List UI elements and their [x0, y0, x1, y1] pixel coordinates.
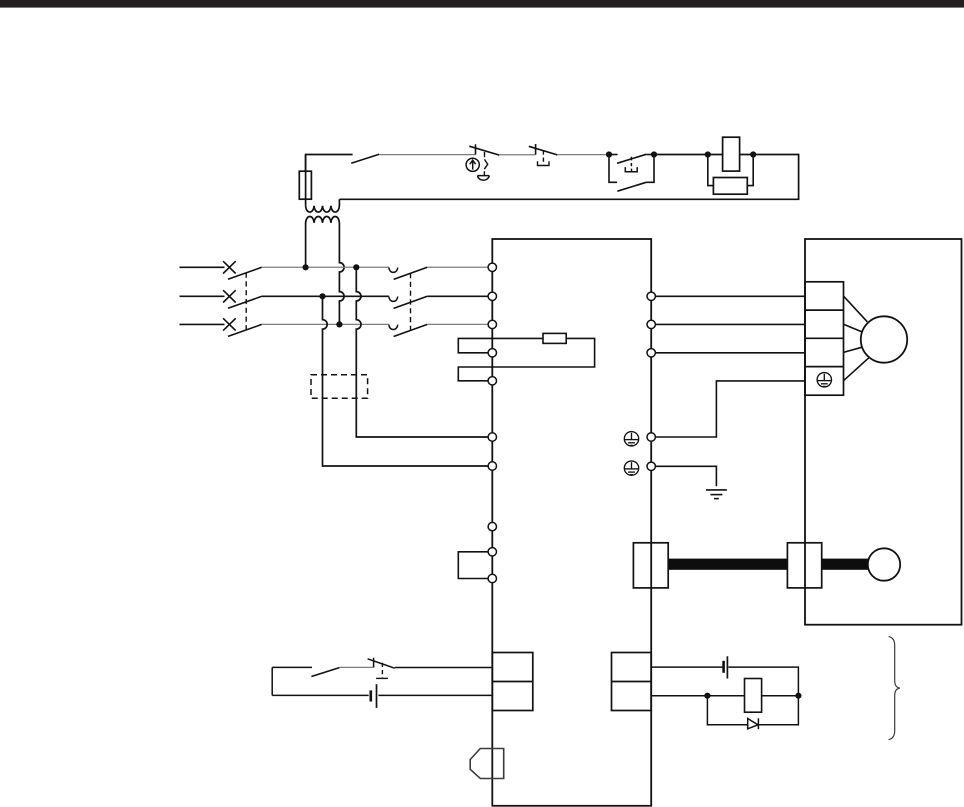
junction: secondary right on L3 [336, 321, 342, 327]
relay coil K1 [723, 137, 740, 171]
motor feed wire V [656, 323, 806, 325]
disconnect switch blade L3 [228, 324, 262, 336]
pump impeller [868, 548, 900, 580]
contactor fixed contact cup L1 [389, 268, 398, 273]
transformer T1 primary winding [306, 199, 340, 212]
contactor mechanical link (dashed) [410, 273, 412, 333]
earth wire to motor terminal block [656, 381, 806, 437]
bus wire L2 [262, 295, 389, 297]
motor lead W [844, 347, 862, 352]
protective earth symbol PE2 [624, 461, 638, 475]
wire: node D right side and control loop return [339, 155, 798, 200]
terminal 6 [488, 433, 496, 441]
thermal sensor bulb [477, 176, 489, 181]
sensor circuit wire to right corner [728, 667, 798, 696]
sensor cell symbol (long plate) [726, 656, 728, 678]
thermal overload switch S2 contact [469, 144, 499, 155]
contact K1a upper (parallel contact) [609, 154, 654, 163]
motor feed wire W [656, 352, 806, 354]
terminal box right (2 cells) [612, 653, 652, 711]
fuse F1 [305, 155, 307, 206]
motor lead V [844, 324, 862, 331]
wire: secondary right lead with hops over L1 and L2 [339, 223, 344, 325]
terminal 9 [488, 548, 496, 556]
disconnect switch blade L1 [228, 267, 262, 279]
pressure switch S3 contact [529, 144, 558, 155]
coupling housing right [787, 543, 821, 588]
protective earth symbol PE3 (terminal block) [817, 373, 831, 387]
motor lead U [844, 296, 868, 322]
terminal U out [647, 292, 655, 300]
control fuse F2 [543, 333, 566, 343]
wire: tap from L2 down to terminal (hops L3) [323, 296, 489, 466]
earth wire to ground electrode [656, 466, 717, 486]
contactor blade L1 [394, 267, 428, 279]
terminal 10 [488, 574, 496, 582]
float switch wire to terminal box [395, 667, 493, 669]
fuse X mark L3 [223, 318, 236, 330]
junction: secondary left on L1 [303, 264, 309, 270]
float circuit cell symbol (long plate) [376, 684, 378, 708]
phase L1 input wire [180, 266, 225, 268]
terminal circles: controller left edge [488, 263, 496, 583]
float circuit bottom wire [272, 694, 369, 696]
wire: contactor to terminal L2 [427, 295, 488, 297]
relay coil K2 [745, 679, 762, 713]
terminal PE1 [647, 433, 655, 441]
node C junction [705, 151, 711, 157]
float circuit wire to terminal box [378, 694, 492, 696]
controller enclosure box [492, 239, 651, 806]
machine enclosure box [805, 239, 962, 625]
wire: node B to node C [654, 154, 708, 156]
pressure switch actuator (dashed link and bracket) [538, 150, 550, 165]
coupling housing left [633, 543, 668, 588]
grouping brace [889, 637, 900, 740]
protective earth symbol PE1 [624, 432, 638, 446]
float switch contact stop [373, 658, 375, 668]
node F junction [795, 693, 801, 699]
bus wire L1 [262, 266, 389, 268]
jumper strap between lower terminals [458, 552, 492, 579]
terminal circles: controller right edge [647, 292, 655, 470]
wire: S3 to node A [557, 154, 606, 156]
contactor blade L2 [394, 296, 428, 308]
wire: coil to node F [762, 695, 799, 697]
motor terminal block [805, 282, 844, 395]
terminal 8 [488, 522, 496, 530]
terminal L1 in [488, 263, 496, 271]
thermal reset symbol (circle with up arrow) [466, 158, 479, 171]
transformer T1 secondary winding [306, 217, 340, 268]
contactor fixed contact cup L3 [389, 325, 398, 330]
node B junction [651, 151, 657, 157]
drive shaft [668, 559, 787, 570]
page header bar [0, 0, 964, 8]
disconnect switch blade L2 [228, 296, 262, 308]
wire: contactor to terminal L1 [427, 266, 488, 268]
wire: node C to node D (under coil) [708, 154, 753, 156]
pump shaft [822, 559, 869, 570]
mechanical linkage bracket between contacts [625, 157, 637, 172]
disconnect mechanical link (dashed) [245, 273, 247, 333]
suppressor element across coil [708, 155, 753, 186]
node D junction [750, 151, 756, 157]
terminal V out [647, 320, 655, 328]
sensor circuit wire bottom [651, 695, 744, 697]
wire: S1 to thermal switch S2 [379, 154, 475, 156]
bus wire L3 [262, 323, 389, 325]
switch S1 main power switch blade [351, 154, 379, 163]
thermal actuator dashed link with chevron [484, 152, 487, 176]
diode bypass loop [707, 696, 798, 725]
float switch blade 2 [368, 659, 395, 668]
contactor fixed contact cup L2 [389, 297, 398, 302]
contact K1b lower (parallel contact) [609, 155, 654, 192]
node A junction [606, 151, 612, 157]
terminal box left (2 cells) [492, 653, 533, 711]
ground electrode symbol [706, 490, 727, 499]
terminal L2 in [488, 292, 496, 300]
junction: control tap on L1 [353, 264, 359, 270]
terminal 7 [488, 462, 496, 470]
terminal L3 in [488, 320, 496, 328]
float switch actuator dashed link and bar [376, 663, 388, 679]
terminal PE2 [647, 462, 655, 470]
diode D1 [748, 718, 759, 729]
fuse X mark L2 [223, 290, 236, 302]
motor M [861, 316, 907, 362]
overload heater dashed box [311, 375, 368, 399]
sensor circuit wire top [651, 666, 722, 668]
motor lead earth [844, 358, 869, 381]
wire: fuse top to switch S1 [306, 155, 353, 172]
wire: tap from L1 down to terminal (hops L2 and L3) [356, 267, 488, 437]
wire: contactor to terminal L3 [427, 323, 488, 325]
phase L3 input wire [180, 323, 225, 325]
motor feed wire U [656, 295, 806, 297]
float switch blade 1 [311, 668, 339, 677]
fused jumper loop between terminals 4 and 5 [458, 338, 594, 380]
float switch wire top left [272, 666, 312, 668]
float switch mid wire [339, 666, 373, 668]
phase L2 input wire [180, 295, 225, 297]
sensor cell symbol (short plate) [722, 661, 725, 673]
plug connector [470, 749, 504, 779]
float circuit cell symbol (short plate) [369, 690, 372, 701]
float circuit left vertical wire [271, 667, 273, 695]
terminal 4 [488, 349, 496, 357]
node E junction [704, 693, 710, 699]
junction: control tap on L2 [319, 293, 325, 299]
contactor blade L3 [394, 324, 428, 336]
fuse X mark L1 [223, 261, 236, 273]
wire: S2 to pressure switch S3 [499, 154, 535, 156]
terminal W out [647, 349, 655, 357]
terminal 5 [488, 377, 496, 385]
